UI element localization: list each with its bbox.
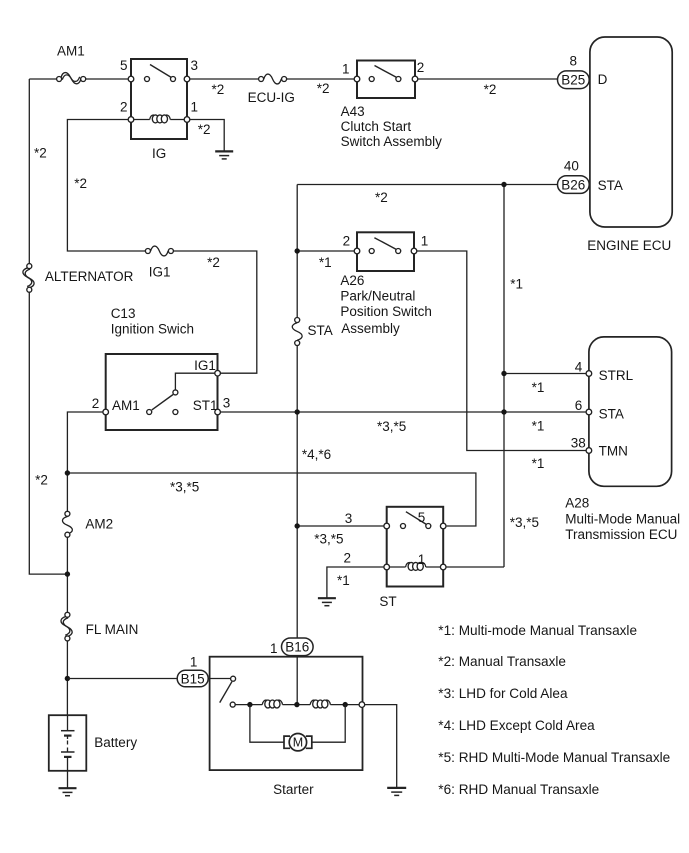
svg-text:Clutch Start: Clutch Start bbox=[341, 119, 412, 134]
wire ST pin2 to ground bbox=[327, 567, 384, 598]
starter switch contact from B15 bbox=[231, 676, 236, 681]
wire AM1 fuse to IG relay pin 5 bbox=[86, 78, 131, 80]
switch C13 pin ST1 bbox=[193, 396, 231, 415]
wire lhd row 4-6 bbox=[35, 447, 476, 526]
relay IG U-box bbox=[131, 59, 187, 161]
svg-text:FL MAIN: FL MAIN bbox=[86, 622, 139, 637]
motor M starter bbox=[284, 734, 312, 751]
svg-text:Assembly: Assembly bbox=[341, 321, 400, 336]
svg-text:A43: A43 bbox=[341, 104, 365, 119]
connector B15 bbox=[177, 655, 208, 687]
svg-text:*2: *2 bbox=[212, 82, 225, 97]
node junction starter right bbox=[343, 702, 348, 707]
ECU box A28 Multi-Mode Manual Transmission ECU bbox=[565, 337, 680, 542]
wire starter row right bbox=[330, 704, 359, 706]
svg-text:*2: *2 bbox=[35, 473, 48, 488]
switch A26 pin 1 bbox=[411, 233, 428, 254]
svg-text:1: 1 bbox=[270, 641, 278, 656]
wire A26 pin1 to TMN bbox=[417, 251, 586, 471]
node junction battery rail B15 bbox=[65, 676, 70, 681]
wire motor branch right bbox=[312, 705, 345, 743]
node junction ST pin3 feed bbox=[295, 523, 300, 528]
svg-text:*2: *2 bbox=[484, 82, 497, 97]
node junction STA branch row bbox=[501, 409, 506, 414]
svg-text:ST: ST bbox=[379, 594, 396, 609]
svg-text:B26: B26 bbox=[561, 177, 585, 192]
svg-text:2: 2 bbox=[92, 396, 100, 411]
svg-text:*1: *1 bbox=[319, 255, 332, 270]
svg-text:STA: STA bbox=[599, 406, 624, 421]
svg-text:STRL: STRL bbox=[599, 368, 634, 383]
svg-text:IG: IG bbox=[152, 146, 166, 161]
svg-text:*4,*6: *4,*6 bbox=[302, 447, 331, 462]
ground starter bbox=[387, 788, 406, 796]
wire A43 pin2 to connector B25 bbox=[418, 79, 558, 97]
switch C13 ignition box bbox=[106, 306, 218, 430]
switch A43 pin 2 bbox=[412, 60, 424, 82]
wire starter output to ground bbox=[365, 705, 397, 788]
svg-text:*5: RHD Multi-Mode Manual Tran: *5: RHD Multi-Mode Manual Transaxle bbox=[438, 750, 670, 765]
wire battery rail lower bbox=[66, 641, 68, 715]
relay IG pin 1 bbox=[184, 100, 198, 123]
svg-text:1: 1 bbox=[190, 655, 198, 670]
starter box bbox=[210, 657, 363, 797]
wire B26 STA feed bbox=[297, 185, 557, 206]
svg-text:*3,*5: *3,*5 bbox=[377, 419, 406, 434]
note 3 bbox=[438, 686, 568, 701]
relay IG switch contacts bbox=[145, 65, 176, 82]
wire battery to ground bbox=[67, 771, 69, 788]
node junction B26 wire bbox=[501, 182, 506, 187]
ECU A28 pin 6 STA bbox=[575, 398, 624, 422]
wire A26 pin2 feed bbox=[297, 251, 354, 270]
relay ST box bbox=[379, 507, 443, 609]
node junction A26 feed bbox=[295, 248, 300, 253]
svg-text:STA: STA bbox=[598, 178, 623, 193]
svg-text:M: M bbox=[293, 736, 303, 750]
svg-text:5: 5 bbox=[418, 510, 426, 525]
wire IG1 fuse to C13 IG1 pin bbox=[173, 251, 256, 373]
relay IG pin 2 bbox=[120, 100, 134, 123]
svg-text:B15: B15 bbox=[181, 672, 205, 687]
svg-text:6: 6 bbox=[575, 398, 583, 413]
wire center rail upper bbox=[296, 185, 298, 318]
ground ST relay bbox=[318, 598, 336, 606]
fuse AM2 bbox=[62, 511, 113, 537]
switch A43 box bbox=[357, 61, 415, 99]
switch C13 pin AM1 bbox=[92, 396, 140, 415]
relay ST coil bbox=[390, 552, 441, 571]
wire starter row mid bbox=[283, 704, 311, 706]
svg-text:40: 40 bbox=[564, 158, 579, 173]
relay IG pin 3 bbox=[184, 58, 198, 82]
svg-text:ECU-IG: ECU-IG bbox=[248, 90, 295, 105]
svg-text:1: 1 bbox=[421, 233, 429, 248]
svg-text:*1: *1 bbox=[532, 456, 545, 471]
wire C13 AM1 to battery rail bbox=[67, 412, 103, 511]
wire center rail lower bbox=[296, 346, 298, 705]
ground IG relay bbox=[215, 151, 233, 159]
wire B15 to starter box bbox=[208, 678, 230, 680]
wire ECU-IG fuse to A43 pin 1 bbox=[287, 79, 355, 96]
svg-text:AM2: AM2 bbox=[85, 516, 113, 531]
svg-text:Multi-Mode Manual: Multi-Mode Manual bbox=[565, 511, 680, 526]
wire battery rail mid bbox=[66, 537, 68, 612]
switch A26 pin 2 bbox=[343, 233, 360, 254]
svg-text:*1: *1 bbox=[510, 277, 523, 292]
note 4 bbox=[438, 718, 595, 733]
wire STRL feed bbox=[504, 374, 586, 396]
svg-text:*3,*5: *3,*5 bbox=[510, 515, 539, 530]
svg-text:A28: A28 bbox=[565, 496, 589, 511]
svg-text:*2: *2 bbox=[34, 146, 47, 161]
relay IG coil bbox=[134, 115, 184, 123]
svg-text:4: 4 bbox=[575, 360, 583, 375]
svg-text:Position Switch: Position Switch bbox=[340, 304, 432, 319]
wire ST1 to STA long row bbox=[220, 412, 586, 434]
svg-text:ALTERNATOR: ALTERNATOR bbox=[45, 269, 134, 284]
switch A26 contacts bbox=[369, 238, 401, 254]
ECU A28 pin 4 STRL bbox=[575, 360, 634, 384]
svg-text:ENGINE ECU: ENGINE ECU bbox=[587, 238, 671, 253]
node junction left rail join bbox=[65, 571, 70, 576]
svg-text:Starter: Starter bbox=[273, 782, 314, 797]
wire IG pin1 to ground bbox=[190, 120, 224, 151]
svg-text:*1: *1 bbox=[532, 380, 545, 395]
svg-text:IG1: IG1 bbox=[194, 358, 216, 373]
note 1 bbox=[438, 623, 637, 638]
svg-text:TMN: TMN bbox=[599, 444, 628, 459]
svg-text:3: 3 bbox=[345, 511, 353, 526]
wire B15 feed bbox=[67, 678, 177, 680]
label A43 Clutch Start Switch Assembly bbox=[341, 104, 443, 149]
svg-text:2: 2 bbox=[120, 100, 128, 115]
starter coil 1 bbox=[262, 700, 282, 708]
relay ST pin 1 right bbox=[440, 564, 446, 570]
note 6 bbox=[438, 782, 599, 797]
svg-text:ST1: ST1 bbox=[193, 398, 218, 413]
switch C13 arm and contacts bbox=[147, 373, 215, 414]
svg-text:A26: A26 bbox=[340, 273, 364, 288]
node junction starter center bbox=[294, 702, 299, 707]
svg-text:*2: *2 bbox=[198, 122, 211, 137]
svg-text:1: 1 bbox=[418, 552, 426, 567]
svg-text:*2: Manual Transaxle: *2: Manual Transaxle bbox=[438, 654, 566, 669]
svg-text:*1: Multi-mode Manual Transaxl: *1: Multi-mode Manual Transaxle bbox=[438, 623, 637, 638]
fuse IG1 bbox=[145, 246, 173, 279]
starter output contact bbox=[359, 702, 365, 708]
svg-text:D: D bbox=[598, 72, 608, 87]
svg-text:*1: *1 bbox=[337, 573, 350, 588]
node junction STRL bbox=[501, 371, 506, 376]
node junction lhd row bbox=[65, 470, 70, 475]
svg-text:*4: LHD Except Cold Area: *4: LHD Except Cold Area bbox=[438, 718, 595, 733]
svg-text:2: 2 bbox=[343, 551, 351, 566]
connector B16 bbox=[270, 638, 313, 656]
svg-text:B25: B25 bbox=[561, 73, 585, 88]
svg-text:3: 3 bbox=[223, 396, 231, 411]
switch A43 contacts bbox=[369, 66, 401, 82]
svg-text:5: 5 bbox=[120, 58, 128, 73]
wire ST pin1 to STA branch rail bbox=[446, 566, 504, 568]
svg-text:*6: RHD Manual Transaxle: *6: RHD Manual Transaxle bbox=[438, 782, 599, 797]
svg-text:*2: *2 bbox=[375, 190, 388, 205]
svg-text:Ignition Swich: Ignition Swich bbox=[111, 321, 194, 336]
svg-text:*3: LHD for Cold Alea: *3: LHD for Cold Alea bbox=[438, 686, 568, 701]
fuse ALTERNATOR bbox=[23, 264, 134, 293]
node junction center rail STA row bbox=[295, 409, 300, 414]
wire left rail lower bbox=[29, 292, 67, 574]
fuse ECU-IG bbox=[248, 74, 295, 105]
relay ST pin 2 bbox=[343, 551, 389, 570]
wire STA branch rail bbox=[504, 185, 539, 568]
svg-text:*1: *1 bbox=[532, 418, 545, 433]
svg-text:*3,*5: *3,*5 bbox=[170, 480, 199, 495]
ECU box ENGINE ECU bbox=[587, 37, 672, 253]
label A26 Park/Neutral Position Switch Assembly bbox=[340, 273, 432, 336]
ground battery bbox=[59, 788, 77, 796]
ECU A28 pin 38 TMN bbox=[571, 435, 628, 458]
starter coil 2 bbox=[310, 700, 330, 708]
svg-text:*2: *2 bbox=[74, 176, 87, 191]
switch C13 pin IG1 bbox=[194, 358, 220, 376]
connector B26 bbox=[558, 158, 623, 193]
wire left rail top bbox=[29, 79, 46, 263]
connector B25 bbox=[558, 54, 608, 89]
relay ST pin 5 right bbox=[440, 523, 446, 529]
svg-text:Transmission ECU: Transmission ECU bbox=[565, 527, 677, 542]
svg-text:*2: *2 bbox=[207, 255, 220, 270]
svg-text:Battery: Battery bbox=[94, 735, 137, 750]
switch A26 box bbox=[357, 232, 414, 271]
battery box bbox=[49, 715, 138, 771]
wire IG pin2 to IG1 fuse bbox=[67, 120, 145, 252]
svg-text:Switch Assembly: Switch Assembly bbox=[341, 134, 443, 149]
fuse FL MAIN bbox=[61, 612, 138, 641]
svg-text:AM1: AM1 bbox=[112, 398, 140, 413]
wire IG pin3 to ECU-IG fuse bbox=[190, 79, 259, 97]
node junction starter left bbox=[247, 702, 252, 707]
svg-text:38: 38 bbox=[571, 435, 586, 450]
svg-text:2: 2 bbox=[343, 233, 351, 248]
relay IG pin 5 bbox=[120, 58, 134, 82]
svg-text:*2: *2 bbox=[317, 81, 330, 96]
fuse STA bbox=[292, 318, 333, 346]
svg-text:1: 1 bbox=[342, 61, 350, 76]
fuse AM1 bbox=[57, 44, 86, 84]
svg-text:*3,*5: *3,*5 bbox=[314, 531, 343, 546]
svg-text:1: 1 bbox=[191, 100, 199, 115]
svg-text:STA: STA bbox=[308, 323, 333, 338]
svg-text:IG1: IG1 bbox=[149, 264, 171, 279]
switch A43 pin 1 bbox=[342, 61, 360, 81]
note 5 bbox=[438, 750, 670, 765]
svg-text:B16: B16 bbox=[285, 640, 309, 655]
wire ST pin3 feed bbox=[297, 526, 384, 546]
starter contact row left bbox=[230, 702, 262, 707]
wire AM1 feed left bbox=[29, 78, 56, 80]
svg-text:C13: C13 bbox=[111, 306, 136, 321]
relay ST pin 3 bbox=[345, 511, 390, 529]
note 2 bbox=[438, 654, 566, 669]
battery cells bbox=[61, 715, 75, 771]
svg-text:3: 3 bbox=[191, 58, 199, 73]
starter switch arm bbox=[220, 682, 232, 703]
svg-text:8: 8 bbox=[570, 54, 578, 69]
svg-text:2: 2 bbox=[417, 60, 425, 75]
svg-text:Park/Neutral: Park/Neutral bbox=[340, 289, 415, 304]
svg-text:AM1: AM1 bbox=[57, 44, 85, 59]
relay ST switch contacts bbox=[401, 510, 431, 529]
wire motor branch left bbox=[250, 705, 284, 743]
